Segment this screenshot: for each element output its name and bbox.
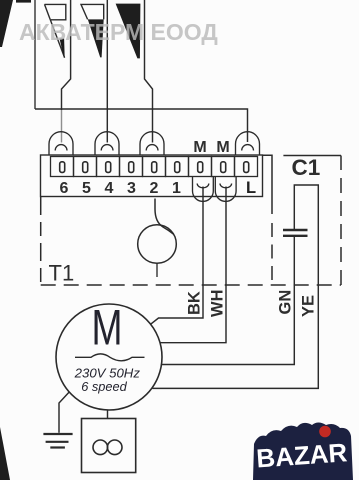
svg-text:5: 5: [82, 180, 91, 197]
cable clamp terminal 6: [49, 132, 73, 155]
svg-text:T1: T1: [49, 261, 75, 286]
speed switch wedge 2 (mid): [81, 4, 104, 57]
svg-text:4: 4: [105, 180, 114, 197]
watermark corner triangle bottom-left: [0, 427, 10, 480]
terminal contact marks (bold 0 in each cell): [60, 162, 249, 173]
wire live feed vertical: [34, 0, 36, 109]
T1 dashed enclosure bottom edge: [41, 284, 341, 286]
watermark badge BAZAR: [253, 423, 353, 480]
suppressor box: [82, 419, 136, 473]
motor winding squiggle: [75, 354, 145, 361]
terminal number labels 6 5 4 3 2 1: [60, 180, 182, 197]
svg-text:2: 2: [150, 180, 159, 197]
impedance coil with curl (terminal 2 to T1): [138, 199, 177, 278]
capacitor C1 plates: [283, 230, 308, 236]
wire from wedge2 to terminal 4: [106, 0, 108, 143]
wire BK from clamp M1 to motor: [151, 187, 204, 325]
dashed enclosure right edge: [340, 156, 342, 286]
svg-text:C1: C1: [292, 155, 321, 180]
stray top mark: [16, 0, 31, 3]
svg-text:WH: WH: [209, 290, 227, 318]
cable clamp terminal 4: [95, 132, 119, 155]
wire clamp M1 (Y): [193, 177, 214, 202]
wire from wedge1 to terminal 6: [62, 0, 71, 110]
wire GN from motor through capacitor: [162, 236, 295, 365]
watermark corner triangle top-left: [0, 0, 13, 47]
ground symbol: [43, 434, 72, 448]
svg-text:BAZAR: BAZAR: [255, 437, 348, 473]
label M M: [193, 139, 229, 156]
suppressor infinity circles: [93, 440, 122, 455]
cable clamp terminal L: [236, 132, 260, 155]
enclosure divider dashed lower part: [271, 223, 273, 285]
wire motor to ground: [59, 392, 69, 433]
speed switch wedge 3 (high): [117, 4, 140, 58]
speed switch wedge 1 (low): [45, 4, 66, 57]
motor M circle: [56, 304, 162, 410]
svg-text:BK: BK: [186, 291, 204, 315]
wire clamp M2 (Y): [215, 177, 236, 202]
wire motor to suppressor: [107, 410, 109, 419]
svg-text:M: M: [193, 139, 206, 156]
wire from wedge3 to terminal 2: [145, 0, 153, 143]
svg-text:3: 3: [127, 180, 136, 197]
svg-text:6: 6: [60, 180, 69, 197]
svg-text:M: M: [216, 139, 229, 156]
svg-text:6 speed: 6 speed: [81, 379, 127, 394]
bus wire from live to terminal L: [35, 109, 248, 142]
svg-text:YE: YE: [300, 295, 318, 317]
wire capacitor top to YE loop: [153, 185, 319, 388]
svg-text:GN: GN: [277, 290, 295, 315]
svg-text:1: 1: [172, 180, 181, 197]
wire WH from clamp M2 to motor: [160, 187, 226, 343]
enclosure top edge right section: [283, 155, 341, 157]
terminal block outer rectangle: [41, 155, 263, 197]
terminal cells row: [51, 157, 258, 177]
cable clamp terminal 2: [140, 132, 164, 155]
T1 dashed enclosure left edge: [40, 197, 42, 285]
svg-text:АКВАТЕРМ ЕООД: АКВАТЕРМ ЕООД: [19, 19, 218, 45]
enclosure divider wire from terminal block: [263, 155, 273, 214]
svg-text:L: L: [246, 179, 256, 197]
svg-text:M: M: [92, 300, 123, 356]
